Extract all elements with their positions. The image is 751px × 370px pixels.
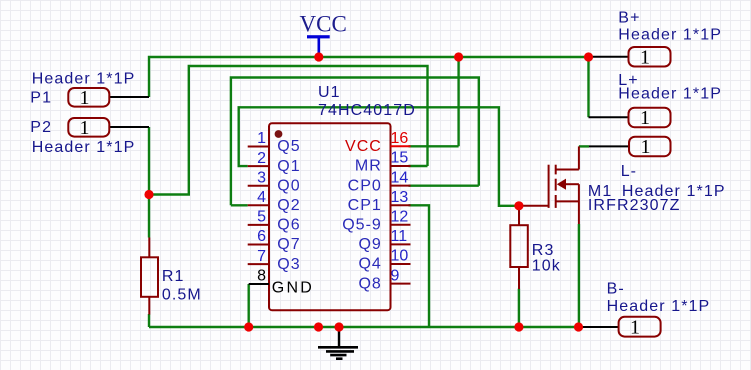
svg-text:Q5-9: Q5-9 [342,217,382,234]
svg-text:Q2: Q2 [277,197,300,214]
wire R3 bottom [518,289,520,327]
svg-text:VCC: VCC [345,138,382,155]
svg-text:3: 3 [257,169,266,186]
svg-text:16: 16 [391,130,409,147]
U1 pin 16 (VCC) [345,130,410,155]
wire L- drain stub [579,145,589,147]
svg-text:74HC4017D: 74HC4017D [318,102,416,119]
svg-text:R1: R1 [162,268,185,285]
connector B+ [589,10,723,69]
svg-text:9: 9 [391,267,400,284]
svg-text:P1: P1 [30,90,52,107]
U1 pin 8 (GND) [249,268,314,297]
svg-text:B+: B+ [618,10,640,27]
svg-text:1: 1 [640,47,650,69]
wire P2 net vertical upper [148,127,150,238]
svg-text:1: 1 [630,317,640,339]
U1 pin 4 (Q2) [248,189,301,214]
junction P2/R1 branch [144,190,153,199]
wire Q1 pin2 join [239,107,519,206]
svg-text:1: 1 [641,136,651,158]
resistor R1 [141,238,202,315]
svg-text:11: 11 [391,228,408,245]
connector P1 [30,70,149,109]
U1 pin 13 (CP1) [348,189,411,214]
wire pin16 to vertical [409,145,459,147]
connector P2 [30,117,149,156]
svg-text:CP0: CP0 [348,177,382,194]
svg-text:Q0: Q0 [277,177,300,194]
ground [318,327,358,359]
U1 pin 12 (Q5-9) [342,209,410,234]
svg-text:0.5M: 0.5M [162,287,202,304]
wire MR pin15 stub join [409,165,428,167]
svg-text:15: 15 [391,150,409,167]
U1 pin 7 (Q3) [248,248,301,273]
wire Q2 to CP0 top run [231,78,479,206]
wire CP0 pin14 join [409,184,479,186]
svg-text:7: 7 [257,248,266,265]
U1 pin 2 (Q1) [248,150,301,175]
power VCC [300,12,347,57]
svg-text:8: 8 [257,268,266,285]
wire M1 source down [578,224,580,327]
svg-text:Header 1*1P: Header 1*1P [32,70,136,87]
U1 pin 3 (Q0) [248,169,301,194]
wire pin16 VCC vertical [457,57,459,146]
svg-text:Q4: Q4 [358,256,381,273]
junction pin16 rail [454,52,463,61]
junction B+ rail [584,52,593,61]
U1 pin 5 (Q6) [248,209,301,234]
wire Q2 pin4 join [231,204,248,206]
U1 pin 1 (Q5) [248,130,301,155]
resistor R3 [510,206,561,289]
svg-text:6: 6 [257,228,266,245]
svg-text:2: 2 [257,150,266,167]
svg-text:R3: R3 [532,242,555,259]
junction gate/R3 [514,201,523,210]
svg-text:Q5: Q5 [277,138,300,155]
svg-text:1: 1 [640,107,650,129]
svg-text:Header 1*1P: Header 1*1P [32,139,136,156]
svg-text:Q8: Q8 [358,275,381,292]
svg-text:U1: U1 [318,84,341,101]
U1 pin 6 (Q7) [248,228,301,253]
svg-text:MR: MR [355,158,382,175]
junction R3 bottom [514,322,523,331]
wire ground bottom rail [149,326,579,328]
svg-text:IRFR2307Z: IRFR2307Z [588,197,681,214]
svg-text:Header 1*1P: Header 1*1P [618,27,722,44]
connector B- [579,281,711,339]
svg-text:CP1: CP1 [348,197,382,214]
svg-text:10: 10 [391,248,409,265]
svg-text:10k: 10k [532,258,561,275]
svg-text:1: 1 [80,87,90,109]
junction GND pin8 [244,322,253,331]
svg-text:5: 5 [257,209,266,226]
wire VCC top rail [149,57,589,97]
svg-text:Q3: Q3 [277,256,300,273]
junction mid rail [314,322,323,331]
svg-text:4: 4 [257,189,266,206]
U1 pin 14 (CP0) [348,169,411,194]
svg-text:VCC: VCC [300,12,347,37]
U1 pin 9 (Q8) [358,267,410,292]
wire P2 branch to MR [149,66,428,195]
U1 pin 11 (Q9) [358,228,410,253]
svg-text:Header 1*1P: Header 1*1P [618,85,722,102]
svg-text:1: 1 [80,117,90,139]
junction VCC symbol [314,52,323,61]
wire P2 net vertical lower (below R1) [148,314,150,327]
transistor M1 IRFR2307Z [519,146,681,224]
U1 pin 10 (Q4) [358,248,410,273]
svg-text:Q6: Q6 [277,217,300,234]
svg-text:L-: L- [621,163,637,180]
junction M1 source / B- [574,322,583,331]
wire B+ vertical to L+ [587,57,589,117]
connector L- [589,136,726,200]
svg-text:Q1: Q1 [277,158,300,175]
wire GND pin8 vertical [247,284,249,327]
svg-text:Header 1*1P: Header 1*1P [607,298,711,315]
svg-text:12: 12 [391,209,409,226]
svg-text:B-: B- [607,281,625,298]
svg-text:P2: P2 [30,119,52,136]
IC U1 74HC4017D [269,84,416,310]
wire CP1 pin13 to ground rail [409,205,430,327]
svg-text:13: 13 [391,189,409,206]
svg-text:Q7: Q7 [277,236,300,253]
connector L+ [589,72,723,129]
svg-text:1: 1 [257,130,266,147]
U1 pin 15 (MR) [355,150,411,175]
svg-text:14: 14 [391,169,409,186]
svg-text:GND: GND [272,280,314,297]
svg-text:Q9: Q9 [358,236,381,253]
junction ground symbol [334,322,343,331]
